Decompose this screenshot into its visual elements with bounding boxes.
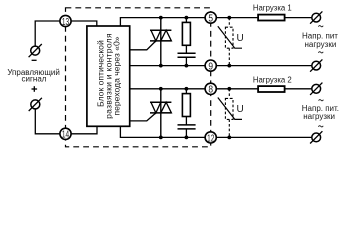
svg-text:сигнал: сигнал bbox=[22, 75, 47, 84]
svg-text:U: U bbox=[236, 33, 243, 44]
svg-text:14: 14 bbox=[62, 128, 69, 140]
svg-text:U: U bbox=[236, 104, 243, 115]
svg-text:9: 9 bbox=[208, 61, 213, 73]
svg-text:13: 13 bbox=[62, 15, 69, 27]
svg-text:перехода через «0»: перехода через «0» bbox=[112, 36, 122, 115]
svg-text:Нагрузка 2: Нагрузка 2 bbox=[253, 75, 292, 84]
svg-text:5: 5 bbox=[208, 13, 213, 25]
svg-text:нагрузки: нагрузки bbox=[303, 112, 335, 121]
svg-text:8: 8 bbox=[208, 84, 213, 96]
svg-text:Нагрузка 1: Нагрузка 1 bbox=[253, 3, 292, 12]
svg-text:нагрузки: нагрузки bbox=[305, 40, 337, 49]
svg-text:12: 12 bbox=[207, 132, 214, 144]
svg-text:Напр. пит: Напр. пит bbox=[302, 31, 338, 40]
